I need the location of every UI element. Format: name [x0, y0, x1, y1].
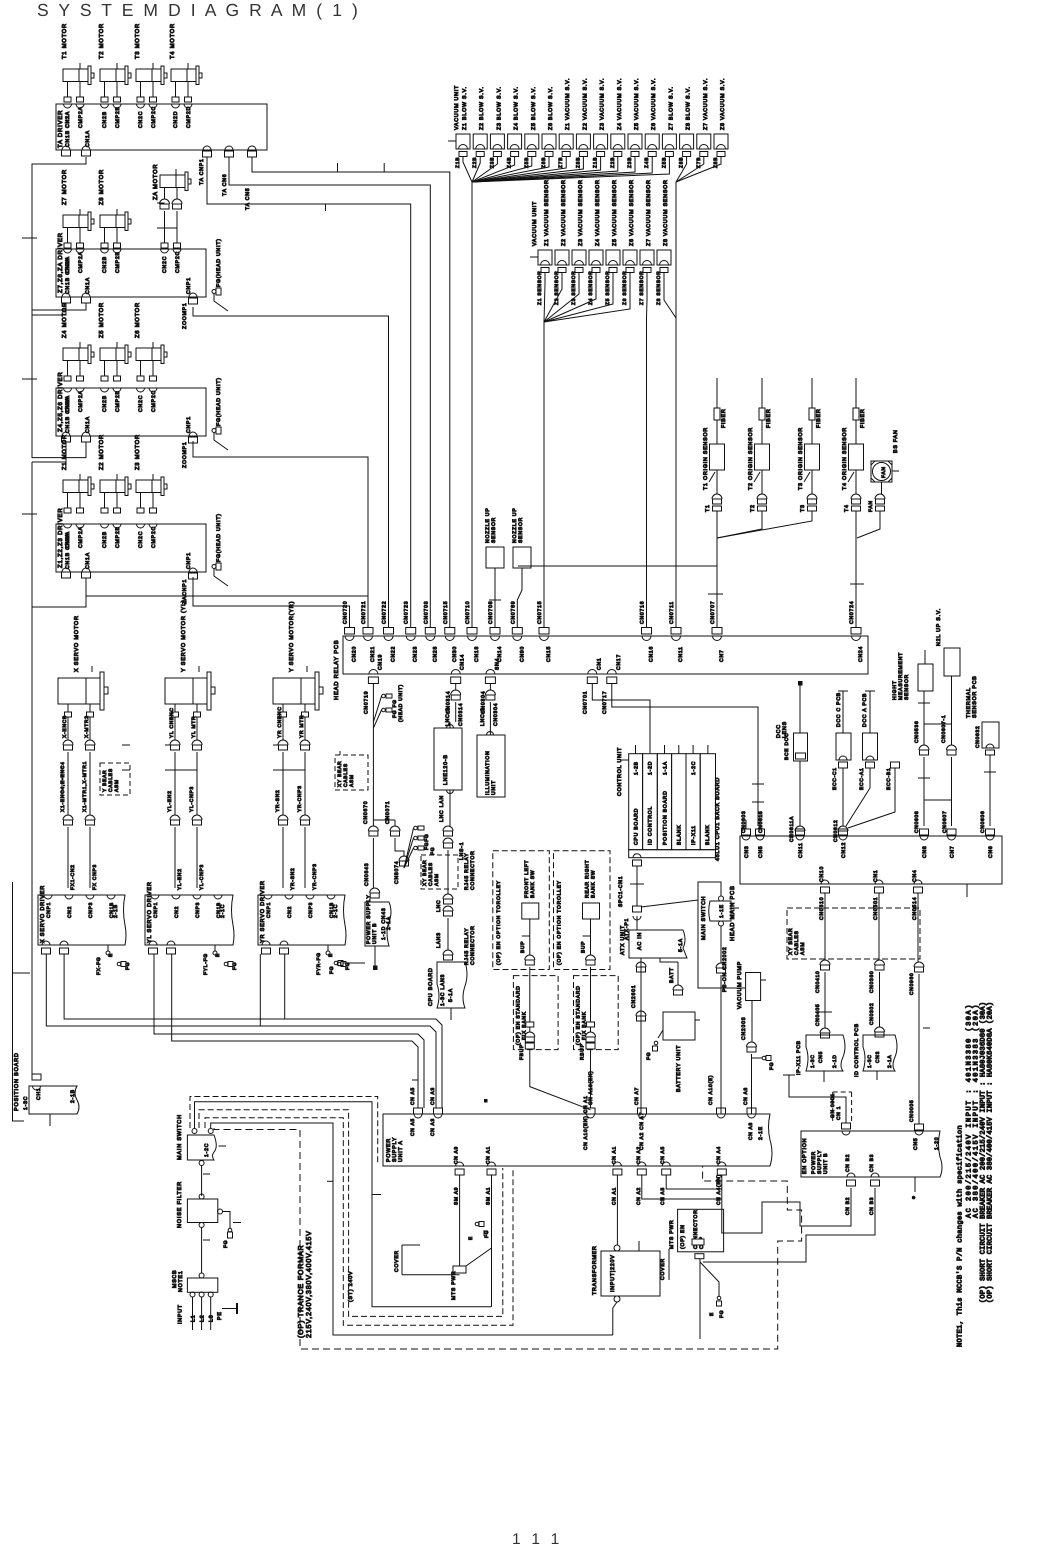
- svg-text:CABLES: CABLES: [343, 763, 349, 787]
- svg-text:CN23: CN23: [413, 646, 419, 662]
- svg-text:CN2B: CN2B: [102, 111, 108, 128]
- svg-text:CN A2: CN A2: [636, 1146, 642, 1164]
- motor Z8: [100, 215, 125, 228]
- svg-text:CMP2B: CMP2B: [115, 251, 121, 273]
- svg-text:(OP) EN OPTION TOROLLEY: (OP) EN OPTION TOROLLEY: [496, 880, 502, 965]
- driver box Z4,Z5,Z6 DRIVER: [56, 388, 206, 436]
- S.V. connector Z8B: [714, 134, 728, 149]
- origin sensor T4: [855, 378, 857, 408]
- wire solid loop P5: [211, 1123, 613, 1335]
- svg-text:CN B3: CN B3: [869, 1197, 875, 1215]
- svg-text:CN0723: CN0723: [404, 601, 410, 624]
- svg-text:X1-MTR1,X-MTR1: X1-MTR1,X-MTR1: [82, 761, 88, 812]
- svg-text:IP-X11 PCB: IP-X11 PCB: [796, 1040, 802, 1075]
- svg-text:CN A3: CN A3: [430, 1087, 436, 1105]
- wire CN A2: [642, 1175, 722, 1199]
- connector ZOOMP1: [189, 293, 197, 297]
- svg-text:BLANK: BLANK: [705, 824, 711, 845]
- wire CN B3: [703, 1188, 875, 1262]
- svg-text:COVER: COVER: [660, 1258, 666, 1280]
- svg-text:AC IN: AC IN: [637, 932, 643, 950]
- svg-text:CNP1: CNP1: [186, 277, 192, 294]
- svg-text:CN11: CN11: [678, 646, 684, 662]
- connector ZACNP1: [189, 568, 197, 572]
- svg-text:Y BEAR: Y BEAR: [102, 770, 108, 792]
- connector CN A5 (PSU A bottom): [662, 1162, 670, 1166]
- svg-text:T4 MOTOR: T4 MOTOR: [169, 23, 176, 59]
- dashed box XY BEAR CABLES ASM (LNC): [421, 855, 458, 889]
- driver box YL SERVO DRIVER: [145, 895, 234, 945]
- dashed box EN OPTION TOROLLEY FRONT LEFT: [493, 851, 550, 970]
- svg-text:Z5 VACUUM S.V.: Z5 VACUUM S.V.: [634, 78, 640, 130]
- svg-text:CN0716: CN0716: [640, 601, 646, 624]
- connector LNC RJ45 relay: [443, 894, 453, 899]
- vacuum pump: [746, 973, 761, 1001]
- svg-text:Z5 SENSOR: Z5 SENSOR: [605, 270, 611, 305]
- S.V. connector Z3B: [594, 134, 608, 149]
- S.V. connector Z5B: [525, 134, 539, 149]
- svg-text:Z6B: Z6B: [541, 157, 547, 168]
- svg-text:1-3C: 1-3C: [810, 1054, 816, 1068]
- svg-text:CN0708: CN0708: [488, 601, 494, 624]
- svg-text:N2L UP S.V.: N2L UP S.V.: [936, 608, 942, 646]
- svg-text:FG: FG: [223, 1240, 229, 1248]
- svg-text:CN2601: CN2601: [631, 985, 637, 1008]
- origin sensor T2: [761, 378, 763, 408]
- svg-text:Z4 MOTOR: Z4 MOTOR: [61, 302, 68, 338]
- svg-text:CMP2C: CMP2C: [151, 390, 157, 412]
- svg-text:VACUUM UNIT: VACUUM UNIT: [532, 201, 538, 246]
- position board: [29, 1086, 79, 1114]
- S.V. connector Z4B: [508, 134, 522, 149]
- svg-text:CN0611A: CN0611A: [789, 816, 795, 842]
- connector CN1B CN1A (TA): [62, 146, 70, 150]
- svg-text:Z8 VACUUM SENSOR: Z8 VACUUM SENSOR: [663, 179, 669, 246]
- svg-text:Z8 VACUUM S.V.: Z8 VACUUM S.V.: [720, 78, 726, 130]
- wire noise filter to MSCB: [201, 1228, 203, 1274]
- FG(HEAD UNIT) pin: [216, 288, 221, 295]
- svg-text:SPC1-CN1: SPC1-CN1: [618, 876, 624, 907]
- connector CN0670: [368, 826, 378, 831]
- S.V. connector Z7B: [697, 134, 711, 149]
- svg-text:CN A5: CN A5: [410, 1118, 416, 1136]
- svg-text:FBUP: FBUP: [519, 1044, 525, 1060]
- svg-text:2-1B: 2-1B: [113, 904, 119, 918]
- S.V. connector Z1B: [456, 134, 470, 149]
- svg-text:CN 1: CN 1: [836, 1106, 842, 1120]
- svg-text:E: E: [328, 953, 334, 957]
- wire Z1Z2Z3 CNP1 to head relay: [193, 577, 350, 628]
- connector CN0632: [986, 750, 995, 755]
- svg-text:CN5: CN5: [818, 1051, 824, 1063]
- wire FBUP chain: [529, 967, 531, 1022]
- svg-text:NOTE1: NOTE1: [178, 1270, 184, 1292]
- power supply unit A box: [383, 1114, 772, 1166]
- svg-text:LNE120-B: LNE120-B: [443, 754, 449, 785]
- svg-text:CN1B CN2A: CN1B CN2A: [65, 111, 71, 147]
- svg-text:L2: L2: [200, 1315, 206, 1322]
- connector CN0501 (head main bottom): [875, 880, 883, 884]
- svg-text:XY BEAR: XY BEAR: [337, 761, 343, 787]
- driver box Z1,Z2,Z3 DRIVER: [56, 524, 206, 572]
- svg-text:SENSOR: SENSOR: [904, 674, 910, 700]
- svg-text:CN20: CN20: [352, 646, 358, 662]
- svg-text:CN5: CN5: [758, 846, 764, 859]
- svg-text:CN2: CN2: [174, 906, 180, 918]
- svg-text:CN0701: CN0701: [582, 691, 588, 714]
- vacuum sensor connector Z3: [572, 250, 586, 265]
- connector CN0536: [919, 745, 929, 750]
- svg-text:LNC-3: LNC-3: [480, 707, 486, 726]
- svg-text:CN A1: CN A1: [486, 1146, 492, 1164]
- svg-text:YR-CNP3: YR-CNP3: [312, 863, 318, 890]
- svg-text:PS-ON CN2002: PS-ON CN2002: [722, 946, 728, 992]
- dashed loop P3: [199, 1110, 503, 1317]
- wires S.V. fan right: [676, 157, 687, 183]
- connector CN0612 (head main): [839, 829, 848, 835]
- svg-text:CN0721: CN0721: [361, 601, 367, 624]
- svg-text:215V,240V,380V,400V,415V: 215V,240V,380V,400V,415V: [305, 1230, 313, 1338]
- connector CN A5 (top): [414, 1108, 423, 1114]
- svg-text:CPU BOARD: CPU BOARD: [428, 967, 434, 1006]
- svg-text:Z7,Z8,ZA DRIVER: Z7,Z8,ZA DRIVER: [57, 232, 64, 293]
- svg-text:X SERVO DRIVER: X SERVO DRIVER: [40, 885, 46, 943]
- motor Z2: [100, 480, 125, 493]
- svg-text:Z3 VACUUM SENSOR: Z3 VACUUM SENSOR: [578, 179, 584, 246]
- svg-text:1-1A: 1-1A: [662, 761, 668, 775]
- svg-text:1-2B: 1-2B: [634, 761, 640, 775]
- svg-text:Z6 BLOW S.V.: Z6 BLOW S.V.: [548, 86, 554, 130]
- svg-text:CONNECTOR: CONNECTOR: [470, 925, 476, 965]
- FG(HEAD UNIT) pin: [216, 563, 221, 570]
- connector CN B3: [871, 1173, 879, 1177]
- svg-text:CN3: CN3: [875, 1051, 881, 1063]
- svg-text:CN0405: CN0405: [815, 1003, 821, 1026]
- svg-text:Z5 BLOW S.V.: Z5 BLOW S.V.: [531, 86, 537, 130]
- wire CN0701 to back board: [592, 683, 650, 753]
- FG pins (head unit): [418, 826, 424, 830]
- svg-text:PE: PE: [217, 1311, 223, 1320]
- svg-text:Z8B: Z8B: [575, 157, 581, 168]
- svg-text:CN0960: CN0960: [909, 972, 915, 995]
- FG pin left of PSU B: [334, 961, 338, 965]
- cover bracket 2: [668, 1249, 670, 1280]
- svg-text:TRANSFORMER: TRANSFORMER: [592, 1245, 598, 1295]
- switch MTS PWR: [453, 1266, 466, 1273]
- svg-text:E: E: [468, 1236, 474, 1240]
- svg-text:FG FG: FG FG: [392, 699, 398, 718]
- svg-text:CNP1: CNP1: [46, 902, 52, 918]
- svg-text:CN22: CN22: [391, 646, 397, 662]
- connector CN0703: [425, 628, 435, 635]
- svg-text:DCC A PCB: DCC A PCB: [862, 693, 868, 727]
- svg-text:VACUUM PUMP: VACUUM PUMP: [737, 961, 743, 1009]
- svg-text:Z7 VACUUM S.V.: Z7 VACUUM S.V.: [703, 78, 709, 130]
- dashed box EN OPTION TOROLLEY REAR RIGHT: [554, 851, 611, 970]
- svg-text:CN1A: CN1A: [85, 130, 91, 147]
- FG pin noise filter: [228, 1228, 232, 1232]
- svg-text:UNIT B: UNIT B: [372, 923, 378, 944]
- svg-text:Z1,Z2,Z3 DRIVER: Z1,Z2,Z3 DRIVER: [57, 508, 64, 568]
- connector CN A2 (PSU A bottom): [638, 1162, 646, 1166]
- svg-text:45LU1 CPU1 BACK BOARD: 45LU1 CPU1 BACK BOARD: [715, 777, 721, 861]
- wire ATX to CN A7: [640, 958, 642, 1114]
- svg-text:5-1A: 5-1A: [678, 938, 684, 952]
- wire main switch top to vacuum pump: [698, 882, 745, 988]
- svg-text:CN0715: CN0715: [537, 601, 543, 624]
- svg-text:TA CNP1: TA CNP1: [199, 158, 205, 185]
- svg-text:Z1B: Z1B: [593, 157, 599, 168]
- wire CN A4 to CN B2: [722, 1175, 851, 1233]
- wire Z4Z5Z6 CNP1 to head relay: [193, 441, 368, 628]
- svg-text:FG(HEAD UNIT): FG(HEAD UNIT): [216, 513, 222, 562]
- svg-text:CN A8: CN A8: [743, 1087, 749, 1105]
- svg-text:FX-FG: FX-FG: [96, 957, 102, 975]
- svg-text:REAR RIGHT: REAR RIGHT: [585, 860, 591, 898]
- svg-text:SM A1: SM A1: [486, 1187, 492, 1205]
- connector CN0603 (head main): [742, 829, 751, 835]
- svg-text:YR MTR: YR MTR: [299, 715, 305, 738]
- svg-text:Z7 BLOW S.V.: Z7 BLOW S.V.: [668, 86, 674, 130]
- cover bracket: [401, 1245, 403, 1275]
- wire sensor bundle to head relay: [543, 322, 545, 628]
- svg-text:Z7B: Z7B: [558, 157, 564, 168]
- main switch (mains): [187, 1135, 216, 1160]
- motor T1: [63, 69, 88, 82]
- svg-text:LNC: LNC: [436, 900, 442, 913]
- svg-text:CN0360: CN0360: [869, 970, 875, 993]
- wire FBUP to CN A10: [530, 1049, 591, 1110]
- svg-text:SM A9: SM A9: [454, 1187, 460, 1205]
- S.V. connector Z1B: [559, 134, 573, 149]
- wire Z1Z2Z3 CN1A to head relay: [86, 578, 368, 628]
- svg-text:Z5 MOTOR: Z5 MOTOR: [98, 302, 105, 338]
- svg-text:CN0607: CN0607: [942, 810, 948, 833]
- connector CN0715: [539, 628, 549, 635]
- wire Z7 sensor to head relay: [646, 273, 649, 628]
- svg-text:CN7: CN7: [719, 650, 725, 663]
- connector CN 1 (PSU B): [842, 1123, 851, 1129]
- connector SM A9 (PSU A bottom): [456, 1162, 464, 1166]
- svg-text:ECC-C1: ECC-C1: [832, 767, 838, 790]
- connector CN A6 (top): [717, 1108, 726, 1114]
- svg-text:ZA MOTOR: ZA MOTOR: [152, 164, 159, 200]
- wire CN0610 to IP-X11: [824, 893, 826, 960]
- svg-text:2-1A: 2-1A: [386, 916, 392, 930]
- connector CN0720: [345, 628, 355, 635]
- svg-text:XY BEAR: XY BEAR: [422, 860, 428, 886]
- svg-text:CMP2B: CMP2B: [115, 390, 121, 412]
- svg-text:CN6: CN6: [988, 846, 994, 859]
- svg-text:T2: T2: [750, 504, 756, 512]
- svg-text:2-1A: 2-1A: [887, 1055, 893, 1068]
- S.V. connector Z5B: [628, 134, 642, 149]
- svg-text:Z4 VACUUM S.V.: Z4 VACUUM S.V.: [617, 78, 623, 130]
- wire transformer out: [613, 1302, 617, 1335]
- svg-text:CN7: CN7: [950, 846, 956, 859]
- svg-text:CN90: CN90: [519, 646, 525, 662]
- svg-text:CN A1: CN A1: [611, 1187, 617, 1205]
- wire RBUP to CN A10: [590, 1049, 592, 1108]
- svg-text:CN1: CN1: [873, 870, 879, 883]
- vacuum sensor connector Z6: [623, 250, 637, 265]
- svg-text:CN1B CN2A: CN1B CN2A: [65, 533, 71, 569]
- svg-text:CN18: CN18: [474, 646, 480, 662]
- svg-text:CN11: CN11: [798, 842, 804, 858]
- svg-text:(OP) TRANCE FORMAR: (OP) TRANCE FORMAR: [297, 1245, 305, 1338]
- svg-text:T3: T3: [800, 504, 806, 512]
- svg-text:CMP2B: CMP2B: [115, 106, 121, 128]
- svg-text:YR-SN2: YR-SN2: [290, 867, 296, 890]
- connector CN0514 (head main bottom): [914, 880, 922, 884]
- pcb HEAD MAIN PCB: [740, 836, 1002, 884]
- svg-text:CN A5: CN A5: [660, 1187, 666, 1205]
- svg-text:CMP2D: CMP2D: [186, 106, 192, 128]
- svg-text:YL CNENC: YL CNENC: [169, 707, 175, 738]
- svg-text:CN17: CN17: [616, 654, 622, 670]
- connector CN2D: [172, 104, 180, 108]
- svg-text:CN0769: CN0769: [510, 601, 516, 624]
- svg-text:Z1 VACUUM SENSOR: Z1 VACUUM SENSOR: [544, 179, 550, 246]
- svg-text:Z6 SENSOR: Z6 SENSOR: [622, 270, 628, 305]
- connector CN2C: [137, 104, 145, 108]
- svg-text:LAN3: LAN3: [436, 932, 442, 948]
- connector CN0708: [490, 628, 500, 635]
- svg-text:RBUP: RBUP: [580, 1043, 586, 1060]
- S.V. connector Z2B: [473, 134, 487, 149]
- svg-text:CN2B: CN2B: [102, 531, 108, 548]
- driver box TA DRIVER: [56, 104, 267, 150]
- svg-text:CPU BOARD: CPU BOARD: [634, 808, 640, 845]
- svg-text:T3 ORIGIN SENSOR: T3 ORIGIN SENSOR: [798, 427, 804, 490]
- connector CN0707: [712, 628, 722, 635]
- connector CN0715: [445, 628, 455, 635]
- connector CN0717: [607, 670, 616, 674]
- dashed loop P4: [205, 1118, 513, 1326]
- svg-text:Z3 VACUUM S.V.: Z3 VACUUM S.V.: [600, 78, 606, 130]
- svg-text:CN4: CN4: [912, 870, 918, 883]
- svg-text:CN2: CN2: [67, 906, 73, 918]
- svg-text:YR SERVO DRIVER: YR SERVO DRIVER: [260, 880, 266, 943]
- svg-text:(OP) EN OPTION TOROLLEY: (OP) EN OPTION TOROLLEY: [557, 880, 563, 965]
- svg-text:2-1B: 2-1B: [70, 1089, 76, 1103]
- driver box YR SERVO DRIVER: [258, 895, 346, 945]
- svg-text:CN1A: CN1A: [85, 552, 91, 569]
- wire SM A9: [459, 1175, 461, 1266]
- svg-text:CNP1: CNP1: [153, 902, 159, 918]
- svg-text:ASM: ASM: [349, 774, 355, 787]
- svg-text:VACUUM UNIT: VACUUM UNIT: [454, 85, 460, 130]
- svg-text:ID CONTROL PCB: ID CONTROL PCB: [854, 1023, 860, 1077]
- svg-text:POSITION BOARD: POSITION BOARD: [14, 1052, 20, 1111]
- svg-text:CNP1: CNP1: [186, 416, 192, 433]
- svg-text:Z7 VACUUM SENSOR: Z7 VACUUM SENSOR: [646, 179, 652, 246]
- connector CN0610 (head main bottom): [821, 880, 829, 884]
- connector CN B2: [847, 1173, 855, 1177]
- power supply unit B (servo): [365, 902, 391, 946]
- cpu board LAN3: [437, 962, 467, 1008]
- connector CN0615 (head main): [756, 829, 765, 835]
- svg-text:Z8 BLOW S.V.: Z8 BLOW S.V.: [686, 86, 692, 130]
- wire CN A1 to transformer: [616, 1175, 618, 1245]
- svg-text:CN0608: CN0608: [914, 810, 920, 833]
- svg-text:FIBER: FIBER: [816, 408, 822, 428]
- pcb IP-X11: [806, 1035, 845, 1071]
- connector CN A8 (top): [747, 1108, 756, 1114]
- svg-text:2-1C: 2-1C: [333, 904, 339, 918]
- svg-text:Z2 VACUUM S.V.: Z2 VACUUM S.V.: [582, 78, 588, 130]
- svg-text:1-1E: 1-1E: [719, 904, 725, 918]
- servo motor Y SERVO MOTOR(YR): [273, 678, 315, 704]
- svg-text:CN0606: CN0606: [980, 810, 986, 833]
- svg-text:Z3 BLOW S.V.: Z3 BLOW S.V.: [496, 86, 502, 130]
- svg-text:CONNECTOR: CONNECTOR: [470, 850, 476, 890]
- junction dot: [912, 1196, 916, 1200]
- svg-text:CN0703: CN0703: [423, 601, 429, 624]
- svg-text:1-3C: 1-3C: [23, 1096, 29, 1110]
- connector SM A1 (PSU A bottom): [488, 1162, 496, 1166]
- svg-text:CN A8: CN A8: [748, 1122, 754, 1140]
- svg-text:BUP: BUP: [581, 941, 587, 953]
- connector CN A10(EN): [586, 1108, 595, 1114]
- svg-text:NOTE1, This MCCB'S P/N changes: NOTE1, This MCCB'S P/N changes with spec…: [955, 1125, 964, 1347]
- svg-text:(OP) EN STANDARD: (OP) EN STANDARD: [515, 985, 521, 1045]
- connector CN0611A: [795, 826, 805, 831]
- S.V. connector Z8B: [680, 134, 694, 149]
- svg-text:CN28: CN28: [432, 646, 438, 662]
- connector ZA cable pair: [160, 199, 170, 204]
- svg-text:CN A9: CN A9: [454, 1146, 460, 1164]
- S.V. connector Z6B: [542, 134, 556, 149]
- nozzle up sensor 2: [513, 547, 531, 568]
- svg-text:CN10: CN10: [819, 866, 825, 882]
- wire T2 T3 join T1: [717, 511, 762, 538]
- svg-text:Z6B: Z6B: [679, 157, 685, 168]
- svg-text:T1 MOTOR: T1 MOTOR: [61, 23, 68, 59]
- vacuum sensor connector Z8: [657, 250, 671, 265]
- svg-text:Z2B: Z2B: [610, 157, 616, 168]
- connector CN A7 (top): [638, 1108, 647, 1114]
- svg-text:CN2C: CN2C: [162, 256, 168, 273]
- svg-text:Z2 BLOW S.V.: Z2 BLOW S.V.: [479, 86, 485, 130]
- svg-text:CN0719: CN0719: [363, 691, 369, 714]
- wire bundle servo to PSU A: [64, 954, 442, 1108]
- svg-text:CNP1: CNP1: [266, 902, 272, 918]
- svg-text:FG: FG: [430, 847, 436, 855]
- svg-text:HEAD MAIN PCB: HEAD MAIN PCB: [729, 885, 736, 941]
- svg-text:CN0670: CN0670: [363, 801, 369, 824]
- svg-text:CN2: CN2: [287, 906, 293, 918]
- svg-text:MAIN SWITCH: MAIN SWITCH: [701, 896, 707, 940]
- BS FAN: [871, 461, 892, 482]
- svg-text:FX1-CN2: FX1-CN2: [70, 864, 76, 890]
- svg-text:CN0711: CN0711: [669, 601, 675, 624]
- svg-text:T1: T1: [705, 504, 711, 512]
- svg-text:CN1A: CN1A: [85, 416, 91, 433]
- svg-text:(HEAD UNIT): (HEAD UNIT): [398, 684, 404, 722]
- connector ATX-P1: [633, 906, 642, 912]
- svg-text:Z6 MOTOR: Z6 MOTOR: [134, 302, 141, 338]
- wire CN0514 to PSU B EN OPTION: [917, 893, 919, 962]
- unit DCC C PCB: [842, 691, 844, 733]
- svg-text:L3: L3: [209, 1315, 215, 1322]
- svg-text:1-2C: 1-2C: [691, 761, 697, 775]
- svg-text:CMP2A: CMP2A: [78, 251, 84, 273]
- svg-text:LNC LAN: LNC LAN: [439, 795, 445, 822]
- svg-text:NOISE FILTER: NOISE FILTER: [177, 1181, 183, 1228]
- connector CN0606 (head main): [986, 829, 995, 835]
- FG pin interlock: [475, 1222, 479, 1226]
